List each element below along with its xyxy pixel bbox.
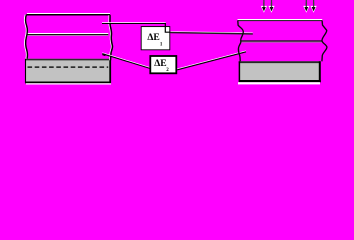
svg-text:ΔE: ΔE	[147, 32, 159, 43]
svg-text:ΔE: ΔE	[154, 58, 166, 69]
photon arrow 3	[303, 0, 309, 13]
leader diagonal from box dE2 up to inside right band	[177, 51, 246, 70]
photon arrow 4	[311, 0, 317, 13]
photon arrow 2	[268, 0, 274, 13]
left band: second level line	[28, 34, 109, 36]
left band: left wavy break edge	[24, 15, 27, 59]
leader line A: corner drop at box dE1	[165, 23, 172, 32]
left band: gray valence box	[25, 59, 111, 83]
label box dE1	[141, 27, 170, 50]
left band: dashed level inside gray box	[28, 66, 109, 68]
right band: right wavy break edge	[322, 21, 327, 62]
right band: top line (conduction)	[238, 20, 323, 21]
leader line A: long segment to right band	[171, 32, 253, 34]
leader line A: upper-left horizontal from inside left band	[102, 22, 166, 25]
leader diagonal from inside left band down to box dE2	[102, 53, 150, 69]
label box dE2	[150, 56, 176, 73]
right band: white strip under gray box	[238, 82, 320, 84]
right band: left wavy break edge	[238, 21, 244, 62]
right band: gray valence box	[239, 61, 321, 82]
left band: white strip under gray box	[26, 83, 111, 84]
right band: second level line	[241, 41, 322, 42]
photon arrow 1	[261, 0, 267, 13]
left band: right wavy break edge	[109, 15, 112, 60]
left band: top line (conduction)	[27, 14, 111, 15]
